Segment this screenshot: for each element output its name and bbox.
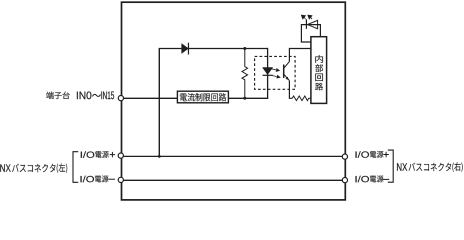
wire: collector up to internal circuit box: [289, 49, 311, 62]
emitter arrowhead: [285, 77, 289, 81]
label: right I/O電源+: [356, 151, 370, 158]
photocoupler dashed outline: [255, 56, 296, 89]
current limiter box: [177, 91, 228, 103]
indicator LED D2 (input display, hollow): [307, 20, 317, 28]
label: 端子台 (terminal block): [46, 92, 69, 99]
wire: IN terminal to current limiter box: [122, 97, 178, 99]
wire: indicator LED loop: [301, 25, 320, 42]
wire: I/O power - rail: [122, 179, 346, 181]
wire: photocoupler LED branch vertical: [267, 48, 269, 98]
terminal circle: right I/O power -: [342, 178, 347, 183]
diode D1 on top rail: [182, 44, 189, 53]
terminal circle: left I/O power +: [118, 153, 123, 158]
unit enclosure border: [122, 2, 346, 200]
right NX bus connector bracket: [388, 150, 393, 182]
left NX bus connector bracket: [73, 152, 78, 183]
wire: top rail (diode anode to LED branch): [159, 48, 268, 50]
phototransistor Q1: [283, 65, 285, 78]
terminal circle: left I/O power -: [118, 177, 123, 182]
internal circuit box 内部回路: [311, 37, 327, 104]
indicator LED arrows: [301, 15, 312, 19]
label: 電流制限回路 (current limiting circuit): [180, 93, 226, 101]
label: NXバスコネクタ(左): [0, 164, 10, 171]
wire: emitter down to emitter resistor: [289, 81, 292, 99]
junction: bottom of R1 on LED cathode wire: [243, 97, 246, 100]
terminal circle: input IN0-IN15: [118, 96, 123, 101]
wire: I/O power + rail: [122, 155, 346, 157]
label: left I/O電源-: [81, 176, 95, 183]
junction: vertical branch on I/O+ rail: [158, 155, 161, 158]
label: left I/O電源+: [81, 151, 95, 158]
label: IN0~IN15: [77, 92, 92, 100]
wire: vertical from I/O+ rail up to top rail: [158, 49, 160, 157]
resistor R1 (parallel with photocoupler LED): [242, 49, 248, 99]
label: right I/O電源-: [356, 176, 370, 183]
label: NXバスコネクタ(右): [397, 163, 407, 170]
label: 内部回路 (internal circuit, vertical): [315, 55, 323, 63]
terminal circle: right I/O power +: [342, 154, 347, 159]
photocoupler light arrows: [272, 69, 280, 78]
resistor R2 (emitter, horizontal): [292, 96, 311, 101]
wire: current limiter output to photocoupler LED cathode corner: [228, 97, 268, 99]
junction: top of R1 on top rail: [243, 47, 246, 50]
photocoupler LED (triangle + cathode bar): [263, 68, 273, 75]
